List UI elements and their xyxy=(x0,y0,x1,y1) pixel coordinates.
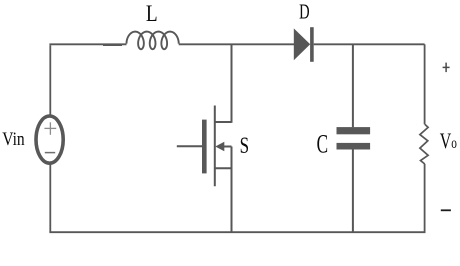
label C xyxy=(317,129,328,158)
diode D xyxy=(294,27,314,62)
label D xyxy=(299,0,309,23)
wire capacitor top to top rail xyxy=(352,44,354,127)
label L xyxy=(146,1,158,27)
wire source top to top-left corner xyxy=(49,45,51,115)
wire source bottom to bottom-left corner xyxy=(49,163,51,232)
svg-text:D: D xyxy=(299,0,309,23)
wire capacitor bottom to bottom rail xyxy=(352,150,354,233)
label Vo xyxy=(440,130,457,154)
wire source of S to bottom rail xyxy=(231,147,233,233)
svg-text:L: L xyxy=(146,1,158,27)
svg-text:S: S xyxy=(240,134,249,159)
wire overlap dash on top rail xyxy=(103,44,122,46)
label Vin xyxy=(2,129,25,150)
load resistor xyxy=(420,124,428,164)
wire drain of S to top rail xyxy=(231,44,233,123)
wire load resistor to bottom rail xyxy=(424,164,426,232)
label S xyxy=(240,134,249,159)
inductor L xyxy=(127,32,179,50)
plus output terminal xyxy=(443,63,450,73)
svg-text:Vo: Vo xyxy=(440,130,457,154)
svg-text:Vin: Vin xyxy=(2,129,25,150)
wire top-right corner to load resistor xyxy=(424,44,426,124)
transistor S (MOSFET) xyxy=(202,106,232,187)
voltage source Vin xyxy=(36,116,63,163)
svg-text:C: C xyxy=(317,129,328,158)
capacitor C xyxy=(337,127,371,149)
wire bottom rail xyxy=(49,231,425,233)
wire inductor to diode xyxy=(179,43,294,45)
wire gate lead of S xyxy=(177,145,202,147)
wire diode to top-right corner xyxy=(314,43,425,45)
wire top-left corner to inductor xyxy=(49,43,126,45)
minus output terminal xyxy=(441,209,451,211)
